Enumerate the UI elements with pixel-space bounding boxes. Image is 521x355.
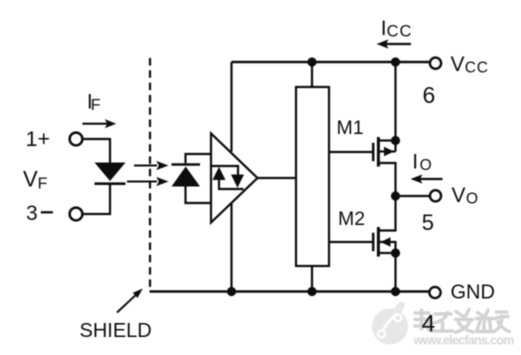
shield dashed line	[149, 58, 151, 289]
svg-text:M1: M1	[337, 117, 364, 139]
terminal VO	[430, 190, 441, 201]
junction M1 drain/body	[391, 136, 400, 145]
watermark logo (elecfans)	[372, 303, 408, 344]
wire photodiode cathode to amp (top)	[186, 154, 211, 163]
transistor M1 (PMOS)	[329, 137, 396, 196]
wire top rail to amp	[230, 62, 232, 152]
label VCC	[451, 53, 489, 76]
photodiode PD1	[172, 165, 201, 187]
junction top rail / mosfet rail	[391, 57, 400, 66]
light arrow upper (LED to photodiode)	[134, 161, 169, 170]
label VO	[452, 184, 479, 208]
label ICC	[381, 17, 413, 40]
label VF	[23, 167, 48, 193]
terminal pin 1 (anode)	[70, 133, 83, 146]
svg-text:6: 6	[423, 82, 436, 108]
svg-text:I: I	[412, 151, 418, 174]
svg-text:F: F	[38, 176, 48, 193]
svg-text:CC: CC	[387, 22, 413, 40]
wire VCC rail to M1	[394, 62, 396, 152]
svg-text:F: F	[91, 97, 101, 114]
op-amp U1 (photo receiver amplifier)	[211, 134, 258, 223]
junction bottom rail / mosfet	[391, 287, 400, 296]
watermark chinese text 电子发烧友	[415, 310, 510, 333]
wire amp to bottom rail	[230, 203, 232, 292]
svg-text:V: V	[451, 53, 465, 76]
junction M2 source/body	[391, 248, 400, 257]
transistor M2 (NMOS)	[329, 196, 396, 257]
top rail wire (VCC)	[232, 61, 430, 63]
svg-text:V: V	[452, 184, 466, 207]
light arrow lower (LED to photodiode)	[127, 177, 169, 186]
wire amp output to driver block	[258, 177, 297, 179]
svg-text:V: V	[23, 167, 38, 192]
arrow IF (input current, pointing right)	[82, 119, 116, 128]
svg-text:CC: CC	[465, 59, 489, 76]
label IO	[412, 151, 431, 174]
svg-text:O: O	[420, 157, 432, 174]
terminal VCC	[430, 58, 441, 69]
svg-text:3: 3	[26, 202, 38, 225]
driver block U2	[296, 87, 329, 266]
wire M2 to GND rail	[394, 253, 396, 292]
arrow IO (pointing left)	[411, 174, 443, 183]
node VO (output node)	[391, 191, 400, 200]
SHIELD callout arrow	[117, 289, 143, 313]
wire photodiode anode to amp (bottom)	[186, 187, 211, 204]
diode icon down (inside amp)	[219, 175, 244, 190]
svg-text:1+: 1+	[26, 127, 51, 151]
label pin 3-	[26, 202, 53, 225]
wire LED cathode to pin3	[83, 185, 110, 214]
LED D1 (input emitter diode)	[95, 163, 126, 184]
svg-text:SHIELD: SHIELD	[80, 320, 152, 342]
svg-text:O: O	[466, 191, 478, 208]
junction bottom rail / amp	[227, 287, 236, 296]
terminal GND	[429, 287, 440, 298]
label IF	[87, 91, 101, 115]
svg-text:M2: M2	[338, 208, 365, 230]
junction bottom rail / driver	[307, 287, 316, 296]
svg-text:4: 4	[422, 310, 436, 337]
wire pin1 to LED anode	[83, 139, 110, 163]
wire output node to VO terminal	[396, 195, 430, 197]
wire driver block to top rail	[311, 62, 313, 87]
junction top rail / driver	[307, 57, 316, 66]
terminal pin 3 (cathode)	[70, 208, 83, 221]
svg-text:GND: GND	[451, 282, 495, 304]
svg-text:5: 5	[422, 210, 434, 235]
bottom rail wire (GND)	[150, 290, 430, 292]
arrow ICC (pointing left)	[377, 39, 412, 48]
wire driver block to bottom rail	[311, 266, 313, 292]
diode icon up (inside amp)	[211, 166, 238, 180]
